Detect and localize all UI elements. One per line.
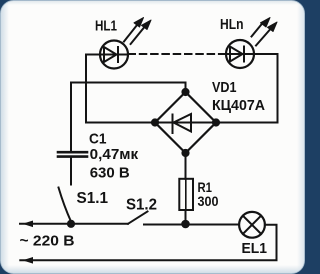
bridge internal wire xyxy=(155,122,216,124)
resistor R1 bottom wire xyxy=(185,210,187,224)
svg-text:0,47мк: 0,47мк xyxy=(90,146,139,163)
svg-text:~ 220 В: ~ 220 В xyxy=(20,233,75,250)
svg-text:300: 300 xyxy=(198,193,219,209)
dashed wire HL1 to HLn xyxy=(129,53,227,55)
bridge diode cathode bar xyxy=(172,115,174,134)
node bridge right xyxy=(213,119,219,125)
svg-text:EL1: EL1 xyxy=(242,240,268,257)
resistor R1 top wire xyxy=(185,153,187,179)
node R1 junction xyxy=(182,221,189,228)
wire top to bridge top vertex xyxy=(71,83,186,93)
wire HL1 left down to bridge left vertex xyxy=(86,55,155,123)
svg-text:КЦ407А: КЦ407А xyxy=(212,97,265,114)
svg-text:HL1: HL1 xyxy=(95,17,117,34)
svg-text:S1.2: S1.2 xyxy=(126,197,157,214)
node S1.1 junction xyxy=(68,221,74,227)
svg-text:VD1: VD1 xyxy=(212,79,237,96)
wire AC line 1 right xyxy=(144,224,239,226)
LED HLn circle xyxy=(226,40,254,68)
LED HL1 circle xyxy=(100,41,128,69)
switch S1.1 blade xyxy=(59,188,72,222)
LED HL1 diode xyxy=(101,47,128,62)
LED HLn diode xyxy=(227,47,254,62)
bridge VD1 diamond xyxy=(155,92,216,153)
arrow AC line 1 xyxy=(24,221,33,226)
LED HLn emission arrows xyxy=(252,18,278,46)
svg-text:S1.1: S1.1 xyxy=(77,190,109,207)
lamp EL1 circle xyxy=(239,212,265,238)
wire HLn right down to bridge right vertex xyxy=(216,54,278,123)
capacitor C1 bottom wire xyxy=(70,158,72,185)
capacitor C1 top wire xyxy=(70,83,72,151)
node bridge top xyxy=(182,89,188,95)
svg-text:630 В: 630 В xyxy=(90,165,130,182)
svg-text:C1: C1 xyxy=(89,131,107,148)
bridge diode triangle xyxy=(174,114,192,132)
wire lamp right down and AC line 2 xyxy=(20,225,276,260)
capacitor C1 plates xyxy=(58,152,87,156)
resistor R1 inner line xyxy=(185,180,187,209)
lamp EL1 cross xyxy=(243,216,261,234)
svg-text:HLn: HLn xyxy=(220,16,244,33)
wire AC line 1 left xyxy=(20,223,128,225)
node bridge left xyxy=(152,119,158,125)
switch S1.2 blade xyxy=(128,212,148,224)
resistor R1 body xyxy=(179,179,193,210)
arrow AC line 2 xyxy=(24,258,33,263)
LED HL1 emission arrows xyxy=(124,18,151,45)
node bridge bottom xyxy=(182,150,188,156)
